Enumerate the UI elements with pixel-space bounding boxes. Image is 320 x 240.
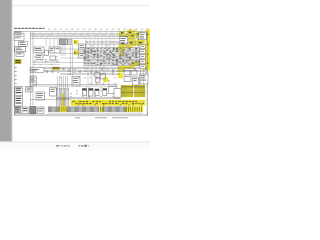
- motor M1: [50, 88, 57, 97]
- highlight connector table right: [121, 85, 134, 97]
- fusible link FL1: [26, 87, 32, 93]
- bus wires right band: [83, 47, 145, 49]
- ticks over yellow segments: [59, 107, 61, 112]
- sensor S1: [72, 77, 80, 87]
- relay block RB2: [131, 71, 137, 76]
- vertical wires mid cluster: [56, 88, 58, 106]
- schematic title text: [14, 28, 17, 29]
- legend sub-box: [19, 41, 28, 46]
- left margin zone labels: [15, 66, 17, 69]
- bottom label row ticks: [47, 106, 49, 112]
- vertical cluster upper: [57, 76, 59, 90]
- wire labels specks: [85, 47, 87, 50]
- connector table pins (in yellow block): [120, 85, 122, 91]
- vertical drops from strip: [85, 39, 87, 48]
- highlight wide bus band: [71, 100, 146, 106]
- relay box RY1 (top-right, over highlight): [119, 37, 128, 44]
- highlight small mid sensor: [104, 77, 109, 82]
- diode D2 mark: [74, 41, 75, 43]
- main left vertical wires: [30, 32, 32, 106]
- vertical wires col 70-74: [70, 44, 72, 76]
- unit U1b: [79, 52, 86, 58]
- title block: [14, 31, 21, 32]
- right margin wire stubs: [147, 34, 149, 35]
- viewer sidebar: [0, 0, 12, 141]
- relay K7: [103, 89, 107, 96]
- bus wires lower: [33, 84, 118, 86]
- vertical drops right: [119, 39, 121, 48]
- strip lower pins: [32, 36, 34, 38]
- vertical drops mid: [87, 65, 89, 84]
- highlight vertical bar: [62, 94, 65, 110]
- highlight small diode D3: [74, 50, 79, 55]
- vertical drops strip to fuses: [45, 39, 47, 47]
- junction box J2: [114, 89, 121, 99]
- highlight: right margin column: [145, 30, 150, 71]
- valve unit V1: [95, 73, 100, 78]
- border bottom inner line: [14, 113, 147, 115]
- schematic border: [14, 32, 147, 116]
- highlight small diode D2: [74, 40, 79, 44]
- top terminal strip rails: [30, 33, 148, 35]
- vertical wires bottom mid: [86, 86, 88, 100]
- bus wires left: [33, 60, 60, 62]
- terminal box T3: [30, 107, 36, 114]
- highlight small lamp: [68, 40, 71, 44]
- relay K3: [36, 92, 45, 100]
- bus wires right band extensions: [60, 48, 83, 50]
- connector CN01 drops: [60, 45, 62, 56]
- switch SW1: [15, 47, 26, 52]
- ladder column right: [140, 45, 145, 49]
- vertical wires right mid: [140, 65, 142, 85]
- connector CN02: [67, 39, 72, 44]
- column label row (tiny): [48, 28, 50, 31]
- connector ladder: [30, 76, 36, 86]
- relay K4: [82, 89, 86, 96]
- valve unit V2: [100, 74, 105, 79]
- diode module D1: [45, 51, 49, 56]
- terminal box T1: [14, 107, 20, 114]
- battery B2: [15, 97, 23, 106]
- relay K5: [88, 89, 93, 97]
- band ticks: [71, 101, 73, 104]
- mid block marks: [53, 67, 56, 68]
- ladder column right (top layer): [140, 45, 145, 49]
- connector table rails: [121, 86, 145, 88]
- bus wires mid band: [44, 66, 147, 68]
- highlight small block mid: [52, 67, 60, 70]
- controller box: [30, 68, 44, 72]
- unit U1a: [79, 44, 86, 50]
- relay block RB3: [124, 77, 131, 82]
- bus wires upper right: [85, 41, 145, 43]
- page background: [0, 0, 150, 150]
- sheet footer marks: [75, 117, 80, 118]
- unit U2: [132, 77, 138, 85]
- relay K2: [36, 54, 43, 60]
- highlight mid-right: [118, 66, 125, 72]
- page bottom edge: [0, 141, 150, 142]
- junction box J1: [109, 87, 117, 94]
- terminal box T2: [22, 107, 28, 114]
- fuse box F1: [49, 47, 60, 53]
- highlight cluster top-right: [119, 31, 125, 36]
- highlight bottom label row segments: [59, 106, 67, 112]
- battery B1: [15, 87, 23, 96]
- switch SW2: [16, 52, 24, 56]
- band vertical crossings: [85, 48, 87, 66]
- top terminal strip pins: [30, 34, 32, 36]
- valve unit V3: [96, 78, 100, 82]
- bus wire to band: [30, 99, 71, 101]
- band text dashes: [73, 100, 75, 103]
- relay K1: [34, 47, 44, 52]
- relay box RY2 (top-right, over highlight): [139, 33, 147, 40]
- terminal box T4: [38, 107, 44, 113]
- connector CN01 (hatched): [60, 39, 68, 45]
- relay K6: [95, 89, 99, 96]
- resistor R1: [50, 56, 56, 60]
- diode D3 mark: [74, 52, 75, 54]
- footer page controls text: [56, 145, 59, 147]
- unit U3: [139, 74, 148, 84]
- page top edge: [12, 4, 150, 6]
- component marks in highlights: [121, 32, 123, 33]
- highlight label left (olive): [15, 59, 22, 64]
- wire stubs above strip: [33, 30, 35, 34]
- bottom label row rail: [48, 112, 143, 114]
- relay block RB1: [124, 71, 130, 76]
